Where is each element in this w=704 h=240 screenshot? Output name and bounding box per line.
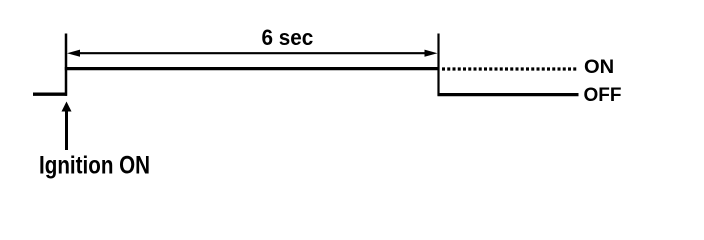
dimension line for 6 sec xyxy=(78,52,427,54)
wire: low level segment before ignition xyxy=(33,92,67,95)
svg-text:6 sec: 6 sec xyxy=(262,24,314,50)
dimension arrowhead right xyxy=(425,50,438,57)
svg-text:ON: ON xyxy=(584,56,614,77)
wire: high level segment (6 sec duration) xyxy=(65,67,439,70)
arrow: ignition ON pointer xyxy=(65,108,68,150)
dimension arrowhead left xyxy=(67,50,80,57)
wire: dotted ON reference line xyxy=(442,67,578,70)
svg-text:Ignition ON: Ignition ON xyxy=(39,151,150,179)
wire: low level segment after 6 sec (OFF line) xyxy=(438,93,579,96)
wire: falling edge with extension line above xyxy=(437,34,439,96)
wire: rising edge with extension line above xyxy=(65,34,68,96)
svg-text:OFF: OFF xyxy=(584,85,622,106)
